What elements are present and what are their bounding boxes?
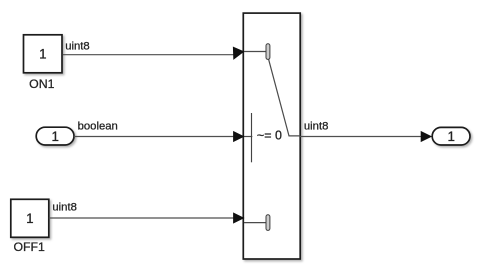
svg-text:uint8: uint8 [52, 202, 77, 214]
svg-text:1: 1 [26, 211, 33, 226]
svg-text:uint8: uint8 [65, 40, 90, 52]
svg-text:1: 1 [51, 129, 58, 144]
svg-text:ON1: ON1 [29, 77, 54, 91]
svg-text:1: 1 [447, 129, 454, 144]
svg-text:boolean: boolean [78, 121, 118, 133]
svg-text:uint8: uint8 [304, 120, 329, 132]
svg-text:OFF1: OFF1 [13, 240, 45, 254]
svg-text:1: 1 [39, 46, 46, 61]
svg-text:~= 0: ~= 0 [257, 129, 282, 143]
